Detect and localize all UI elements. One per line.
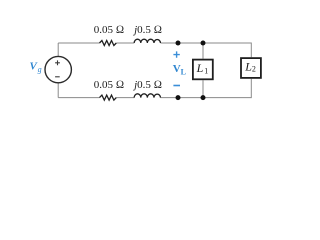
svg-text:L: L bbox=[196, 61, 204, 75]
svg-text:g: g bbox=[38, 65, 42, 74]
wire top right corner drop to L2 bbox=[250, 43, 252, 58]
wire L1 top lead bbox=[202, 43, 204, 59]
svg-text:0.05 Ω: 0.05 Ω bbox=[94, 24, 124, 36]
load box L2 bbox=[241, 58, 261, 78]
plus sign blue at load terminals bbox=[173, 51, 179, 57]
svg-text:2: 2 bbox=[252, 65, 256, 74]
svg-text:1: 1 bbox=[204, 67, 208, 76]
inductor j0.5 ohm bottom bbox=[134, 94, 160, 98]
wire top rail right segment bbox=[161, 42, 252, 44]
wire bottom rail middle segment bbox=[116, 97, 134, 99]
node dot bottom left terminal bbox=[176, 95, 181, 100]
node dot top L1 junction bbox=[201, 41, 206, 46]
wire top rail middle segment bbox=[116, 42, 134, 44]
node dot bottom L1 junction bbox=[201, 95, 206, 100]
svg-text:L: L bbox=[181, 68, 186, 77]
minus sign blue at load terminals bbox=[173, 85, 180, 87]
svg-text:0.05 Ω: 0.05 Ω bbox=[94, 79, 124, 91]
wire bottom rail right segment bbox=[161, 97, 252, 99]
wire bottom right corner rise to L2 bbox=[250, 79, 252, 98]
wire source top drop bbox=[57, 43, 59, 56]
svg-text:j0.5 Ω: j0.5 Ω bbox=[132, 24, 162, 36]
resistor 0.05 ohm top bbox=[100, 41, 117, 46]
wire bottom rail left segment bbox=[58, 97, 99, 99]
source plus sign bbox=[55, 60, 60, 65]
wire source bottom drop bbox=[57, 83, 59, 98]
resistor 0.05 ohm bottom bbox=[100, 95, 117, 100]
node dot top left terminal bbox=[176, 41, 181, 46]
svg-text:V: V bbox=[173, 63, 181, 75]
voltage source Vg circle bbox=[45, 56, 71, 82]
svg-text:j0.5 Ω: j0.5 Ω bbox=[132, 79, 162, 91]
wire top rail left segment bbox=[58, 42, 99, 44]
inductor j0.5 ohm top bbox=[134, 39, 160, 43]
load box L1 bbox=[193, 60, 213, 80]
source minus sign bbox=[55, 76, 60, 78]
wire L1 bottom lead bbox=[202, 80, 204, 97]
